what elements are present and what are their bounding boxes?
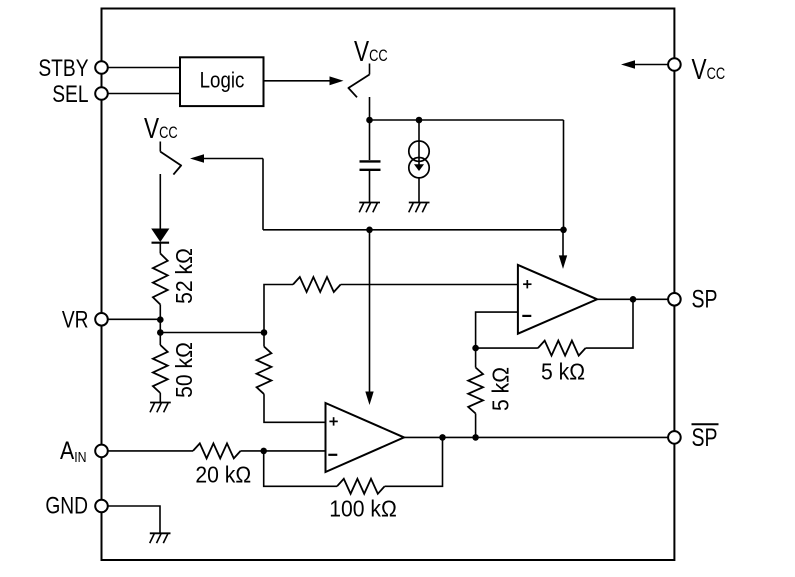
svg-text:SP: SP — [692, 285, 718, 313]
node divider mid — [261, 329, 268, 336]
op-amp U1 (bottom) — [326, 403, 405, 472]
resistor 5k vertical — [468, 348, 483, 437]
wire divider node down — [263, 333, 265, 347]
wire Logic output with arrow to switch S1 — [264, 76, 344, 85]
pin STBY — [95, 61, 108, 74]
pin AIN — [95, 445, 108, 458]
wire rail y=230 — [263, 229, 564, 231]
ground (GND pin) — [150, 533, 171, 543]
label VCC pin — [692, 52, 726, 85]
node U2 output — [630, 296, 637, 303]
svg-text:5 kΩ: 5 kΩ — [488, 367, 514, 411]
wire U2 minus input — [476, 312, 518, 348]
ground (capacitor) — [359, 203, 380, 213]
pin SP-bar — [668, 431, 681, 444]
node SPB feedback junction — [439, 434, 446, 441]
capacitor C1 — [360, 120, 381, 203]
pin VR — [95, 313, 108, 326]
node feedback/5k junction — [472, 345, 479, 352]
resistor R-mid (unlabeled vertical) — [257, 347, 326, 423]
wire divider node up and right to comparator + — [264, 285, 293, 333]
wire GND pin — [108, 506, 161, 533]
label SP — [692, 285, 718, 313]
label 100 kOhm — [329, 496, 397, 522]
wire SEL to Logic — [108, 93, 181, 95]
resistor 100k — [337, 437, 443, 493]
ground (50k) — [150, 403, 171, 413]
pin VCC — [668, 58, 681, 71]
label STBY — [38, 54, 89, 82]
svg-text:VR: VR — [62, 306, 89, 334]
label AIN — [60, 436, 86, 465]
VCC label at switch S1 — [354, 34, 388, 67]
node rail230 left bias drop — [366, 227, 373, 234]
wire AIN input — [108, 450, 194, 452]
label 20 kOhm — [195, 462, 251, 488]
wire from switch S2 arrow feed — [190, 154, 263, 230]
node U1 minus junction — [260, 448, 267, 455]
diode D1 — [151, 229, 169, 254]
switch S2 (left) — [160, 142, 181, 229]
label 50 kOhm — [171, 342, 197, 398]
resistor 52k — [153, 254, 168, 320]
node VR top — [157, 316, 164, 323]
wire U2 feedback drop — [586, 299, 634, 348]
resistor 5k feedback — [476, 341, 586, 356]
wire VCC pin arrow — [621, 60, 668, 69]
label 52 kOhm — [171, 248, 197, 304]
node: current source tap — [416, 117, 423, 124]
op-amp U2 (top) — [518, 265, 597, 334]
resistor 50k — [153, 345, 168, 403]
pin SP — [668, 293, 681, 306]
label SEL — [52, 80, 88, 108]
svg-text:SEL: SEL — [52, 80, 88, 108]
wire bias drop to comparator U2 with arrow — [559, 230, 567, 269]
node: VCC switched rail junction — [366, 117, 373, 124]
svg-text:20 kΩ: 20 kΩ — [195, 462, 251, 488]
wire VR pin to node — [108, 318, 161, 320]
IC package border — [102, 9, 675, 561]
pin GND — [95, 500, 108, 513]
svg-text:STBY: STBY — [38, 54, 89, 82]
Logic block U3 — [180, 57, 264, 106]
node rail230 right bias drop — [560, 227, 567, 234]
node SPB 5k junction — [472, 434, 479, 441]
label 5 kOhm vertical — [488, 367, 514, 411]
wire SP-bar rail — [404, 436, 668, 438]
pin SEL — [95, 87, 108, 100]
VCC label at switch S2 — [144, 111, 178, 144]
svg-text:5 kΩ: 5 kΩ — [541, 359, 585, 385]
label 5 kOhm feedback — [541, 359, 585, 385]
svg-text:52 kΩ: 52 kΩ — [171, 248, 197, 304]
wire rail y=332.5 to divider node — [160, 332, 264, 334]
svg-text:50 kΩ: 50 kΩ — [171, 342, 197, 398]
wire U1 feedback loop — [264, 451, 337, 486]
wire STBY to Logic — [108, 67, 181, 69]
wire rail y=120 — [370, 119, 564, 121]
svg-text:GND: GND — [45, 491, 88, 519]
wire bias drop to op-amp U1 with arrow — [365, 230, 373, 405]
wire U2 output to SP — [597, 298, 668, 300]
ground (current source) — [409, 203, 430, 213]
label VR — [62, 306, 89, 334]
svg-text:100 kΩ: 100 kΩ — [329, 496, 397, 522]
switch S1 (top) — [348, 64, 370, 121]
label GND — [45, 491, 88, 519]
resistor 20k — [193, 443, 326, 458]
wire node link — [159, 320, 161, 345]
wire right drop to rail y=230 — [563, 120, 565, 230]
svg-text:SP: SP — [692, 424, 718, 452]
resistor R-top (unlabeled) — [293, 277, 518, 292]
label SP-bar — [692, 424, 719, 452]
current source I1 — [409, 120, 429, 203]
node VR bottom — [157, 329, 164, 336]
svg-text:Logic: Logic — [200, 69, 245, 93]
